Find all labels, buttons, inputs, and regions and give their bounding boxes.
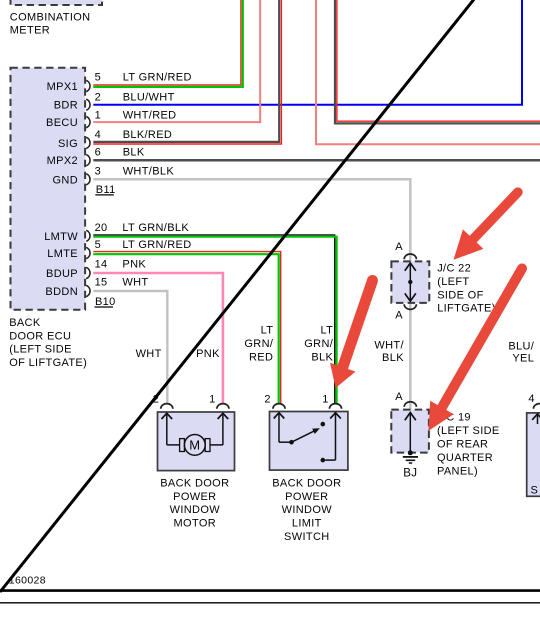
limit switch S1 internal wiring <box>274 413 341 463</box>
svg-text:4: 4 <box>95 129 101 141</box>
pin 1 BECU of ECU <box>46 110 101 130</box>
svg-text:J/C 22: J/C 22 <box>437 263 471 275</box>
wire BLK pin 6 <box>93 159 540 162</box>
svg-text:LT GRN/RED: LT GRN/RED <box>122 239 191 251</box>
svg-text:15: 15 <box>95 277 108 289</box>
svg-text:(LEFT: (LEFT <box>437 276 469 288</box>
svg-text:6: 6 <box>95 147 101 159</box>
svg-text:BLU/WHT: BLU/WHT <box>123 91 175 103</box>
svg-text:160028: 160028 <box>9 575 46 587</box>
svg-text:WHT/BLK: WHT/BLK <box>123 165 175 177</box>
wire WHT/BLK pin 3 (to junctions) <box>93 179 410 409</box>
svg-text:MOTOR: MOTOR <box>174 518 217 530</box>
label WHT/BLK vertical <box>374 340 404 365</box>
J/C 22 caption <box>437 263 496 315</box>
red arrow to J/C 22 <box>454 192 518 260</box>
svg-text:WHT/RED: WHT/RED <box>123 110 177 122</box>
pin 2 BDR of ECU <box>54 91 101 111</box>
pin 3 GND of ECU <box>53 165 102 186</box>
junction connector J/C 19 box <box>391 410 429 453</box>
J/C 22 internal bus <box>405 263 416 301</box>
svg-text:M: M <box>189 438 200 453</box>
pin 20 LMTW of ECU <box>44 222 107 243</box>
svg-text:LIFTGATE): LIFTGATE) <box>437 303 496 315</box>
motor M1 internal wiring <box>162 413 229 445</box>
svg-text:(LEFT SIDE: (LEFT SIDE <box>9 344 72 356</box>
svg-text:S: S <box>531 484 539 496</box>
svg-text:DOOR ECU: DOOR ECU <box>9 330 71 342</box>
motor M1 symbol <box>180 435 210 456</box>
combination meter label <box>10 11 91 36</box>
red arrow to limit switch pin 1 wire <box>330 281 373 389</box>
combination meter connector box <box>11 0 103 5</box>
svg-text:SIG: SIG <box>58 138 78 150</box>
svg-text:YEL: YEL <box>512 352 534 364</box>
svg-text:BDUP: BDUP <box>46 268 78 280</box>
J/C 19 caption <box>437 411 500 477</box>
connector arc motor pin 2 <box>161 404 173 409</box>
wire BLK/RED pin 4 <box>93 0 281 144</box>
right partial connector box <box>527 413 540 496</box>
wire PNK pin 14 (to motor pin 1) <box>93 273 223 404</box>
svg-text:OF REAR: OF REAR <box>437 438 488 450</box>
bottom border thick line <box>0 589 540 592</box>
svg-text:BJ: BJ <box>403 468 417 480</box>
back door ECU caption <box>9 317 87 369</box>
back door power window motor box <box>158 412 235 471</box>
svg-text:BACK DOOR: BACK DOOR <box>160 477 229 489</box>
svg-text:LIMIT: LIMIT <box>292 518 322 530</box>
label LT GRN/RED vertical <box>244 325 273 364</box>
wire WHT/RED pin 1 <box>93 0 260 122</box>
svg-text:LMTE: LMTE <box>47 248 78 260</box>
back door ECU connector box <box>11 68 86 310</box>
svg-text:BLK: BLK <box>311 351 333 363</box>
wire BLU/WHT pin 2 <box>93 0 522 105</box>
svg-text:5: 5 <box>95 239 101 251</box>
svg-text:1: 1 <box>209 393 215 405</box>
svg-text:METER: METER <box>10 24 50 36</box>
svg-text:BECU: BECU <box>46 117 78 129</box>
svg-text:PNK: PNK <box>122 259 146 271</box>
svg-text:QUARTER: QUARTER <box>437 452 493 464</box>
connector arc switch pin 1 <box>329 404 341 409</box>
svg-text:POWER: POWER <box>285 491 328 503</box>
right box internal pin wire <box>532 414 540 424</box>
wire GRY/RED (top to right edge) <box>335 0 540 123</box>
svg-text:A: A <box>395 241 403 253</box>
svg-text:GRN/: GRN/ <box>244 338 273 350</box>
svg-text:PNK: PNK <box>196 348 220 360</box>
svg-text:LT: LT <box>320 325 333 337</box>
svg-text:MPX1: MPX1 <box>47 81 78 93</box>
svg-text:3: 3 <box>95 165 101 177</box>
junction connector J/C 22 box <box>391 261 429 303</box>
red arrow to J/C 19 <box>428 269 522 431</box>
svg-text:BACK: BACK <box>9 317 41 329</box>
svg-text:1: 1 <box>95 110 101 122</box>
svg-text:14: 14 <box>95 259 108 271</box>
svg-text:LT GRN/BLK: LT GRN/BLK <box>122 222 189 234</box>
wire WHT pin 15 (to motor pin 2) <box>93 291 167 404</box>
svg-text:MPX2: MPX2 <box>47 155 78 167</box>
label LT GRN/BLK vertical <box>304 325 333 364</box>
svg-text:OF LIFTGATE): OF LIFTGATE) <box>9 357 87 369</box>
svg-text:A: A <box>395 391 403 403</box>
svg-text:SIDE OF: SIDE OF <box>437 289 483 301</box>
bottom border thin line <box>0 602 540 604</box>
svg-text:LT GRN/RED: LT GRN/RED <box>123 71 192 83</box>
svg-text:1: 1 <box>322 393 328 405</box>
connector label B11 <box>95 184 115 196</box>
J/C 19 internal bus <box>405 413 416 456</box>
limit switch caption <box>272 477 341 543</box>
svg-text:BLU/: BLU/ <box>508 340 534 352</box>
label BLU/YEL <box>508 340 534 364</box>
pin 4 SIG of ECU <box>58 129 101 150</box>
motor caption <box>160 477 229 529</box>
svg-text:20: 20 <box>95 222 108 234</box>
connector arc right box pin 4 <box>533 404 540 409</box>
svg-text:SWITCH: SWITCH <box>284 531 329 543</box>
svg-text:WHT: WHT <box>136 348 162 360</box>
wire LT GRN/RED pin 5 (to limit switch pin 2) <box>93 252 280 404</box>
wire LT GRN/RED pin 5 (to combination meter) <box>93 0 243 87</box>
svg-text:4: 4 <box>528 393 534 405</box>
svg-text:POWER: POWER <box>173 491 216 503</box>
wire LT GRN/BLK pin 20 (to limit switch pin 1) <box>93 235 336 404</box>
svg-text:WHT: WHT <box>122 277 148 289</box>
pin 14 BDUP of ECU <box>46 259 108 281</box>
svg-text:BDDN: BDDN <box>45 286 78 298</box>
svg-text:2: 2 <box>264 393 270 405</box>
svg-text:RED: RED <box>249 351 273 363</box>
svg-text:LMTW: LMTW <box>44 231 78 243</box>
connector arc above J/C 22 <box>404 254 416 259</box>
svg-text:(LEFT SIDE: (LEFT SIDE <box>437 425 500 437</box>
svg-text:GND: GND <box>53 174 79 186</box>
svg-text:PANEL): PANEL) <box>437 465 478 477</box>
svg-text:B10: B10 <box>95 296 116 308</box>
pin 5 LMTE of ECU <box>47 239 101 260</box>
connector arc switch pin 2 <box>273 404 285 409</box>
svg-text:A: A <box>395 310 403 322</box>
svg-text:BLK: BLK <box>123 147 145 159</box>
svg-text:LT: LT <box>261 325 274 337</box>
svg-text:BACK DOOR: BACK DOOR <box>272 477 341 489</box>
connector arc motor pin 1 <box>217 404 229 409</box>
pin 6 MPX2 of ECU <box>47 147 101 168</box>
ground BJ symbol <box>403 457 418 463</box>
svg-text:BLK/RED: BLK/RED <box>123 129 173 141</box>
svg-text:5: 5 <box>95 71 101 83</box>
pin 15 BDDN of ECU <box>45 277 107 299</box>
svg-text:BLK: BLK <box>382 352 404 364</box>
svg-text:GRN/: GRN/ <box>304 338 333 350</box>
back door power window limit switch box <box>270 412 348 471</box>
svg-text:WINDOW: WINDOW <box>282 504 333 516</box>
svg-text:WHT/: WHT/ <box>374 340 404 352</box>
svg-text:COMBINATION: COMBINATION <box>10 11 91 23</box>
pin 5 MPX1 of ECU <box>47 71 101 93</box>
svg-text:BDR: BDR <box>54 100 78 112</box>
connector arc above J/C 19 <box>404 402 416 407</box>
connector arc below J/C 22 <box>404 304 416 309</box>
connector label B10 <box>95 296 116 308</box>
wire WHT/RED (top to right edge) <box>316 0 540 144</box>
svg-text:WINDOW: WINDOW <box>170 504 221 516</box>
svg-text:2: 2 <box>95 91 101 103</box>
